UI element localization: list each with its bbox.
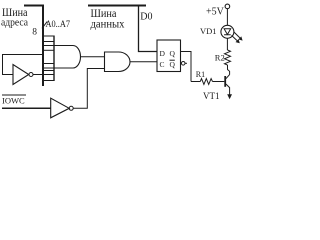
diode VD1: LED circle [221, 25, 234, 38]
diode VD1: triangle [224, 29, 231, 35]
transistor VT1: base bar [224, 76, 226, 87]
wire: R1 to base [213, 81, 225, 83]
wire: address rung 6 [43, 80, 54, 82]
node: IOWC overline [2, 94, 26, 96]
svg-text:VD1: VD1 [200, 26, 217, 36]
wire: R2 to collector [228, 65, 230, 75]
node: inverter D4 output bubble [69, 106, 73, 110]
wire: D0 drop from data bus [139, 5, 158, 52]
svg-text:C: C [160, 60, 165, 69]
wire: latch Q output to R1 [181, 52, 191, 82]
diode VD1: light arrow 2 [232, 35, 240, 43]
wire: address rung 3 [43, 49, 54, 51]
inverter D2 triangle [13, 65, 29, 85]
svg-text:адреса: адреса [1, 17, 28, 29]
node: address bus label "Шина адреса" [1, 5, 28, 29]
svg-text:R1: R1 [196, 70, 205, 79]
wire: address bus horizontal [24, 5, 44, 7]
wire: input rail of AND gate D1 [53, 36, 55, 82]
wire: AND D1 output to AND D3 [81, 56, 105, 58]
pin label Q-bar overline [170, 59, 175, 61]
svg-text:IOWC: IOWC [2, 95, 25, 105]
wire: tap from bus to inverter loop [3, 55, 44, 75]
node: bus width slash [42, 22, 47, 29]
wire: address rung 5 [43, 70, 54, 72]
svg-text:Q: Q [170, 60, 176, 69]
svg-text:+5V: +5V [206, 6, 225, 17]
svg-text:Q: Q [170, 49, 176, 58]
svg-text:8: 8 [32, 27, 37, 37]
wire: data bus horizontal [88, 5, 146, 7]
svg-text:VT1: VT1 [203, 91, 220, 101]
wire: address rung 2 [43, 41, 54, 43]
diode VD1: light arrow 1 [234, 32, 243, 41]
node: data bus label "Шина данных" [91, 6, 125, 31]
node: inverter D2 output bubble [29, 73, 33, 77]
svg-text:D: D [160, 49, 166, 58]
svg-text:D0: D0 [140, 11, 152, 22]
wire: inverter D2 output to rail [33, 74, 54, 76]
resistor R1 zigzag [200, 79, 212, 85]
wire: Q-bar stub [185, 62, 187, 64]
svg-text:R2: R2 [215, 53, 225, 63]
node: +5V terminal circle [225, 4, 230, 9]
wire: address rung 1 [43, 35, 54, 37]
node: U1 inverted output bubble [181, 62, 185, 66]
AND gate D3 (2-input) [105, 52, 131, 72]
svg-text:данных: данных [91, 17, 125, 31]
resistor R2 zigzag [225, 50, 231, 65]
D-latch U1 box [157, 40, 181, 72]
wire: R1 left wire [191, 81, 200, 83]
transistor VT1: emitter with arrow [226, 84, 232, 99]
wire: inverter D4 output up to AND D3 [73, 69, 104, 109]
wire: IOWC input wire [2, 107, 51, 109]
wire: LED to R2 [226, 38, 228, 50]
transistor VT1: collector diagonal [226, 75, 230, 79]
inverter D4 triangle [51, 98, 69, 118]
wire: AND D3 output to latch C input [130, 61, 157, 63]
wire: address bus vertical [42, 5, 44, 87]
AND gate D1 (8-input address decoder) [43, 46, 81, 69]
wire: address rung 4 [43, 63, 54, 65]
svg-text:A0..A7: A0..A7 [46, 19, 71, 29]
wire: +5V to LED [226, 9, 228, 26]
